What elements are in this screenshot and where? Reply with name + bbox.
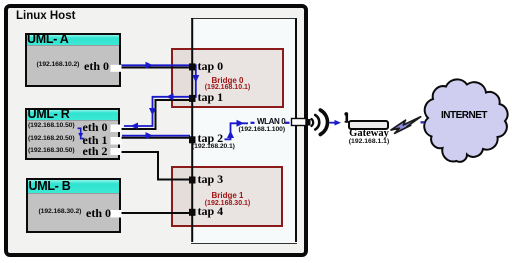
strip right border line (295, 18, 297, 242)
tap 2 square (189, 136, 196, 143)
arrow right on eth1 wire (146, 132, 154, 139)
wire eth1R to tap2 (122, 137, 191, 139)
wire tap1 to eth0R (121, 100, 190, 129)
UML-B eth 0 label (86, 207, 111, 219)
tap 3 square (189, 177, 196, 184)
tap 0 square (189, 63, 196, 70)
Linux Host label (16, 11, 75, 23)
tap 0 label (198, 60, 224, 72)
bridge 1 label (171, 192, 284, 200)
wire eth2R to tap3 (122, 152, 190, 180)
UML-A title (27, 33, 68, 46)
WLAN 0 label (257, 118, 285, 126)
arrow right to WLAN (237, 120, 245, 127)
UML-R box (25, 108, 120, 160)
UML-B title (29, 180, 71, 193)
wire eth0A to tap0 (122, 67, 191, 69)
strip left border line (191, 18, 193, 242)
tap 2 label (198, 132, 224, 144)
cloud (424, 79, 507, 161)
WLAN port box (292, 119, 307, 126)
UML-A IP label (37, 62, 80, 69)
Gateway label (338, 129, 400, 140)
tap 4 label (198, 205, 224, 217)
UML-R eth 0 label (83, 121, 108, 133)
wifi arc small (312, 119, 314, 126)
UML-R IP eth0 label (28, 123, 75, 130)
blue route bracket inside UML-R (78, 128, 85, 138)
arrow down on vertical to eth0R (149, 108, 156, 116)
blue dash before WLAN text (251, 122, 255, 124)
UML-B IP label (39, 209, 82, 216)
UML-A eth 0 label (84, 60, 109, 72)
tap 1 label (198, 91, 224, 103)
INTERNET cloud label (430, 111, 498, 121)
UML-R eth 1 label (83, 134, 108, 146)
arrow up on tap2 riser (227, 131, 234, 139)
arrow right on eth0A wire (146, 62, 154, 69)
UML-A box (25, 33, 121, 88)
port eth0R (111, 125, 122, 133)
blue flow eth1R to tap2 (122, 135, 190, 137)
tap 2 IP label (192, 144, 235, 151)
blue flow path A: eth0A to tap0 to tap1 to eth0R (121, 65, 196, 126)
arrow down on bracket (78, 133, 83, 138)
blue arrow wifi to gateway (330, 122, 335, 124)
port eth2R (111, 148, 122, 155)
UML-B box (26, 178, 121, 233)
blue dash after WLAN text (285, 122, 290, 124)
Gateway IP label (338, 139, 400, 146)
bridge 1 IP label (171, 200, 284, 207)
blue dash before cloud (421, 121, 425, 123)
wifi arc middle (315, 115, 319, 130)
bridge 1 box (171, 166, 283, 228)
blue path tap2 to WLAN (225, 123, 249, 139)
wire eth0B to tap4 (122, 212, 191, 214)
UML-R IP eth2 label (28, 148, 75, 155)
Gateway box (348, 120, 389, 130)
gateway antenna (345, 115, 348, 122)
WLAN port nub (306, 119, 311, 126)
tap 4 square (189, 209, 196, 216)
UML-R title (28, 108, 70, 121)
tap 3 label (198, 173, 224, 185)
tap 1 square (189, 95, 196, 102)
bridge 0 label (171, 77, 284, 85)
arrow down in bridge0 (192, 75, 199, 83)
UML-R eth 2 label (83, 145, 108, 157)
arrow left on tap1 wire (166, 93, 174, 100)
wifi arc large (320, 110, 327, 135)
port eth1R (111, 137, 122, 145)
Linux Host box (4, 4, 308, 257)
arrow left into eth0R (131, 123, 139, 130)
bridge 0 IP label (171, 84, 284, 91)
WLAN IP label (239, 127, 286, 134)
port eth0A (111, 65, 122, 72)
lightning bolt (391, 117, 421, 134)
port eth0B (111, 210, 122, 218)
bridge 0 box (171, 48, 284, 108)
UML-R IP eth1 label (28, 136, 75, 143)
tap strip (191, 18, 298, 244)
